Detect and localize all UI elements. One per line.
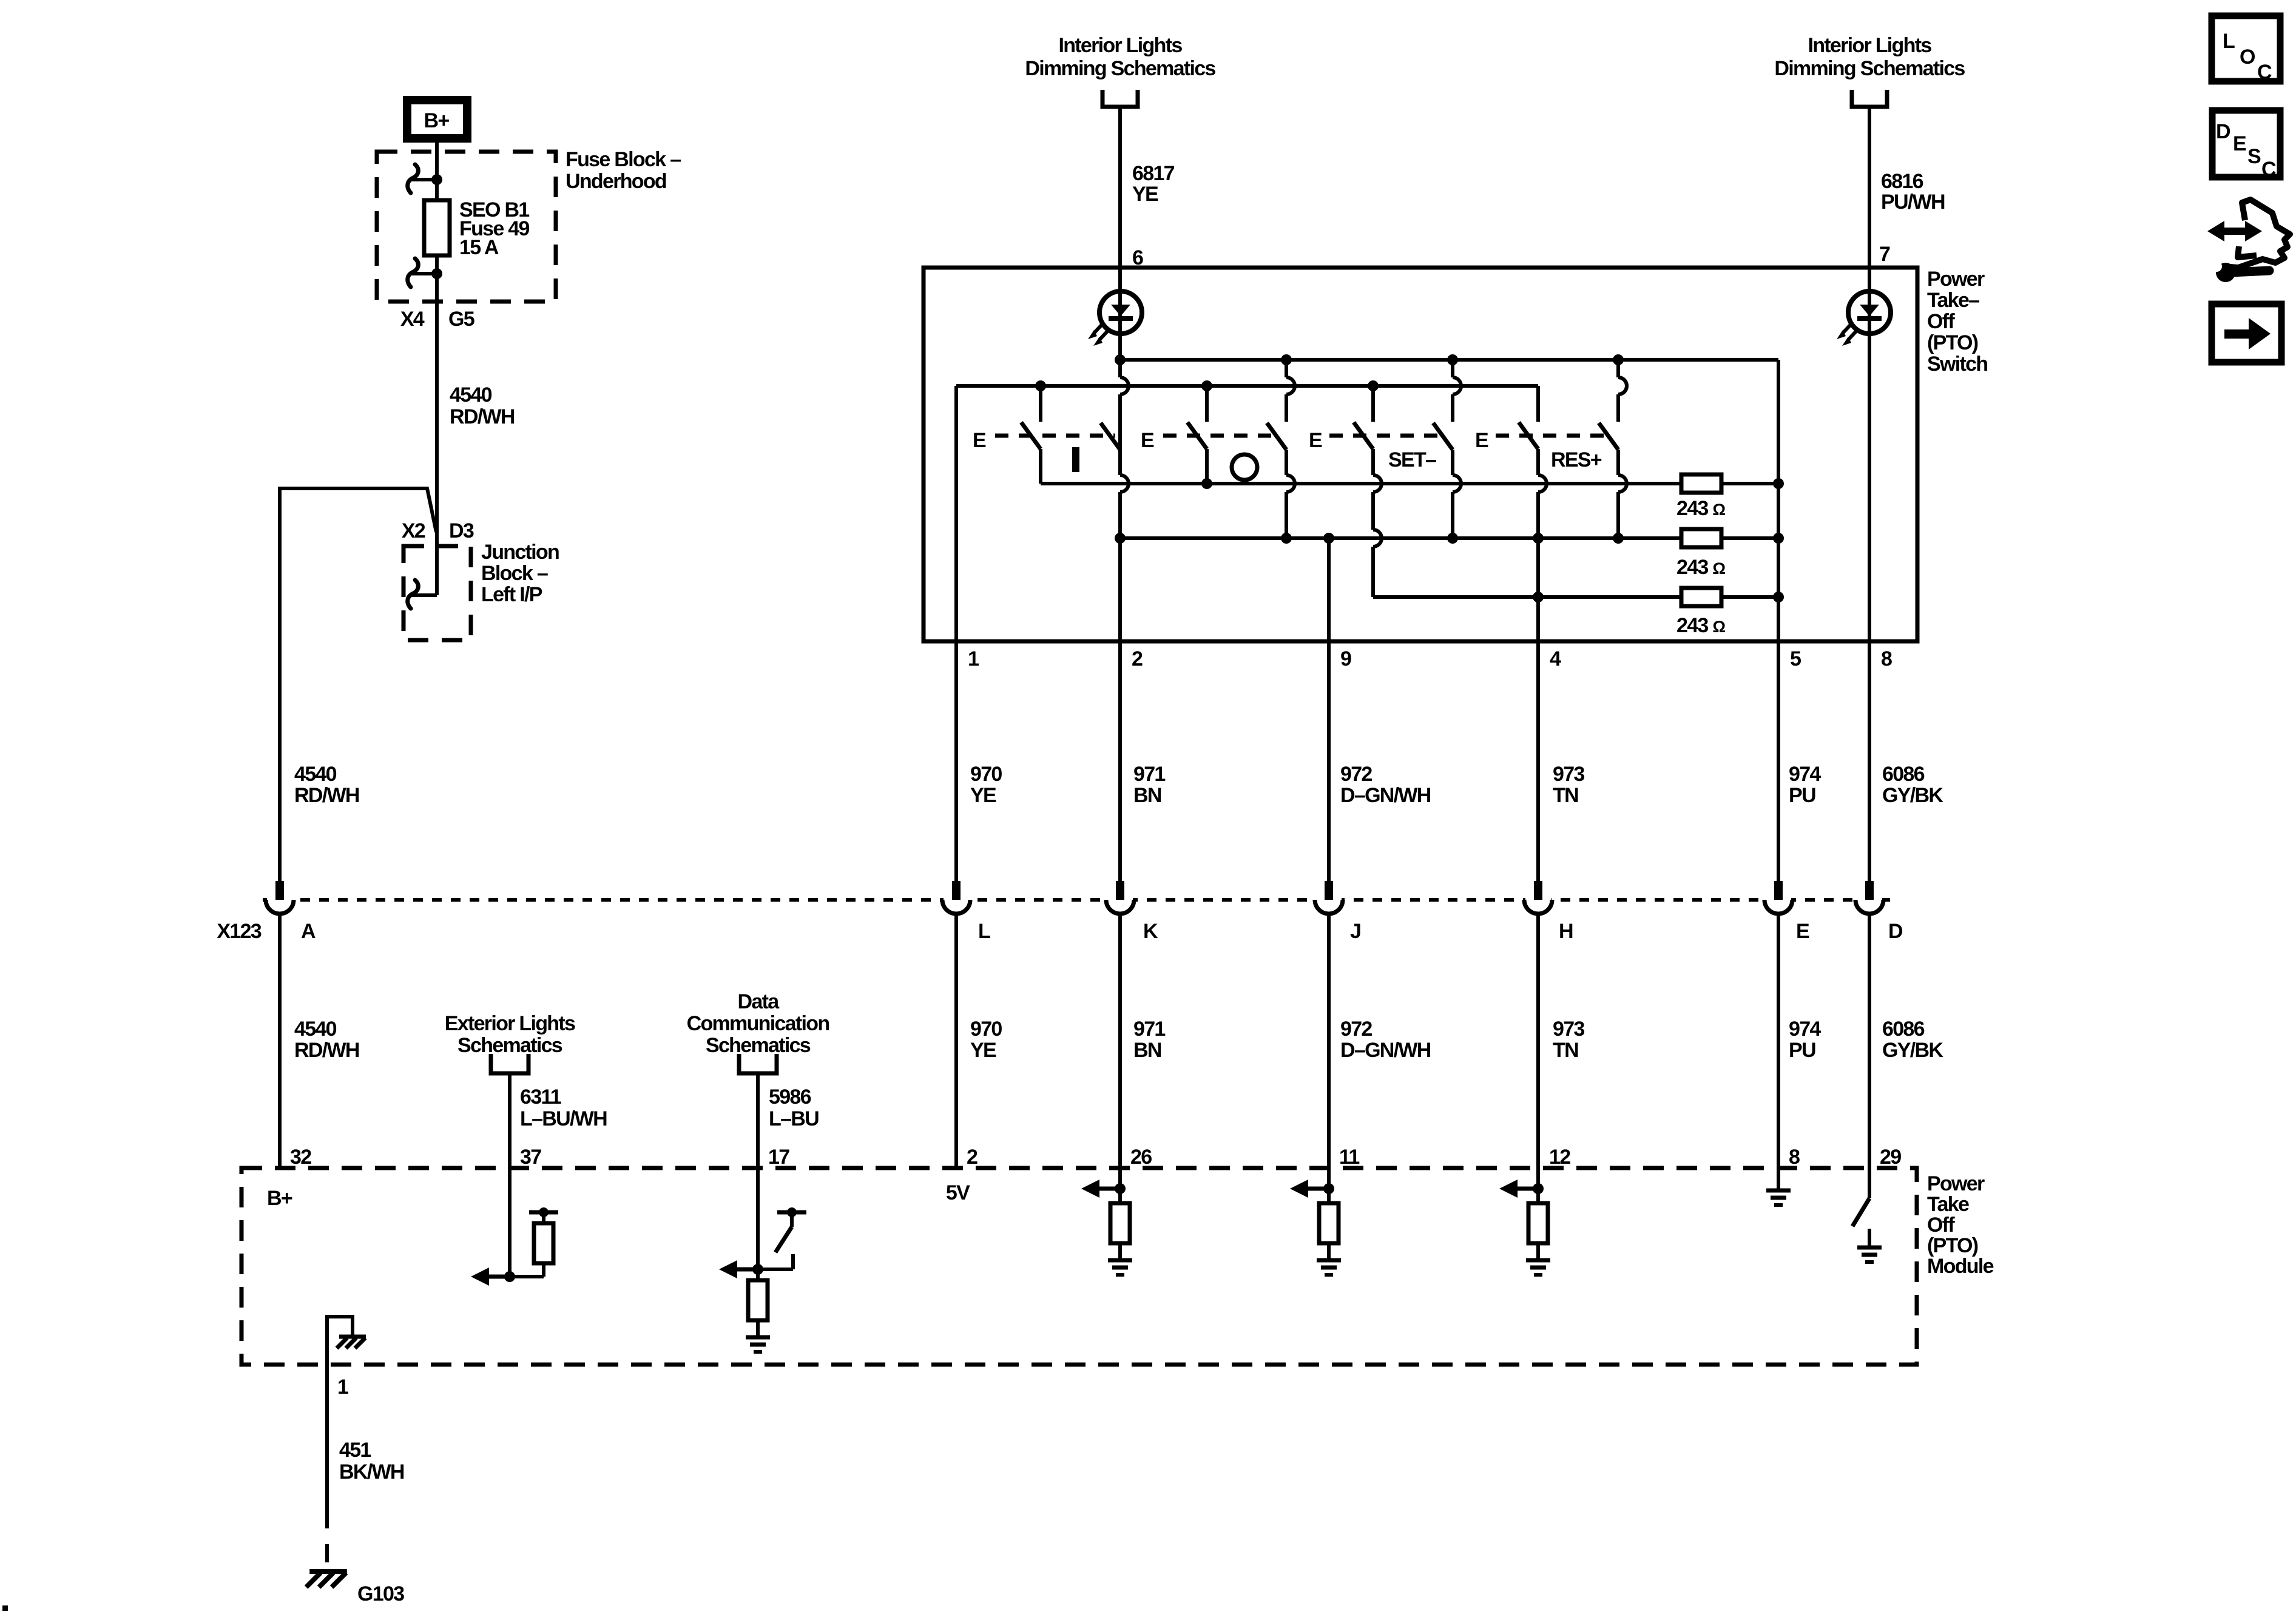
resistor R1 243ohm [1681,474,1721,493]
connector X123 cavity K [1107,896,1133,903]
svg-text:451: 451 [339,1439,371,1462]
svg-text:974: 974 [1789,763,1821,786]
svg-text:TN: TN [1553,784,1578,807]
svg-text:GY/BK: GY/BK [1882,784,1943,807]
module input pin 37: pull-up resistor and sense arrow [508,1168,512,1277]
battery feed B+ symbol [407,100,467,138]
svg-text:D–GN/WH: D–GN/WH [1340,784,1431,807]
svg-text:E: E [973,429,986,452]
group4 left wire to pin4 (H) [1536,449,1540,475]
connector X123 cavity E [1766,896,1791,903]
icon adjust/repair (hand with double arrow and wrench) [2221,228,2249,235]
actuator dashed link group2 [1163,434,1281,438]
svg-text:O: O [2240,46,2255,69]
svg-text:YE: YE [970,1039,996,1062]
svg-text:970: 970 [970,763,1002,786]
svg-text:5V: 5V [946,1181,970,1204]
actuator dashed link group3 [1329,434,1448,438]
svg-text:Take–: Take– [1927,289,1979,312]
svg-text:E: E [1475,429,1488,452]
rail B (common rail to pin 1) [956,384,1538,388]
svg-text:Off: Off [1927,1214,1955,1237]
group4 right wire to bus2 [1616,360,1620,377]
connector X123 cavity A [267,896,292,903]
wire L to PTO module [954,914,958,1168]
svg-text:970: 970 [970,1018,1002,1041]
svg-text:5: 5 [1790,647,1801,670]
svg-text:Exterior Lights: Exterior Lights [445,1012,575,1035]
svg-text:6086: 6086 [1882,1018,1925,1041]
module input pin 11: sense arrow, resistor to ground [1327,1168,1331,1189]
svg-text:6816: 6816 [1881,170,1923,193]
svg-text:L–BU/WH: L–BU/WH [520,1107,607,1130]
wire pin9 from bus2 [1327,538,1331,881]
svg-text:37: 37 [520,1146,541,1169]
wire pin6/LED1/pin2 spine [1118,109,1122,377]
svg-text:PU: PU [1789,1039,1815,1062]
svg-text:15 A: 15 A [459,236,499,259]
svg-text:Module: Module [1927,1255,1994,1278]
wire pin1 (rail B left end down) [954,386,958,881]
svg-text:243 Ω: 243 Ω [1676,497,1725,520]
svg-text:Off: Off [1927,310,1955,333]
svg-text:29: 29 [1880,1146,1901,1169]
svg-text:G103: G103 [357,1582,404,1605]
icon forward arrow box [2212,304,2281,362]
svg-text:7: 7 [1879,243,1890,266]
module input pin 17: sense arrow, internal switch, resistor to ground [756,1168,760,1269]
svg-text:243 Ω: 243 Ω [1676,556,1725,579]
module pin 1 wire [325,1365,329,1510]
junction block dashed box [403,546,471,640]
svg-text:E: E [1141,429,1154,452]
svg-text:PU/WH: PU/WH [1881,191,1945,214]
svg-text:4540: 4540 [450,383,492,407]
svg-text:D: D [2216,120,2230,143]
svg-text:Take: Take [1927,1193,1969,1216]
resistor R3 243ohm [1681,588,1721,606]
branch wire to module B+ [280,488,436,881]
svg-text:Junction: Junction [481,541,559,564]
svg-text:Left I/P: Left I/P [481,583,542,606]
position label O (off) [1232,454,1257,480]
svg-text:E: E [1309,429,1322,452]
svg-text:973: 973 [1553,763,1584,786]
svg-text:8: 8 [1881,647,1892,670]
svg-text:973: 973 [1553,1018,1584,1041]
svg-text:E: E [2233,132,2246,155]
svg-text:(PTO): (PTO) [1927,1234,1978,1257]
icon LOC box [2212,16,2280,81]
svg-text:1: 1 [337,1376,348,1399]
svg-text:Schematics: Schematics [706,1034,811,1057]
svg-text:Power: Power [1927,268,1985,291]
svg-text:BN: BN [1133,1039,1161,1062]
terminal hook lower [408,258,419,287]
module pin 29: switch to ground [1868,1168,1871,1198]
svg-text:YE: YE [970,784,996,807]
wire 4540 fuse to junction block [435,255,439,595]
svg-text:L: L [978,920,990,943]
terminal hook upper [408,164,419,193]
svg-text:D–GN/WH: D–GN/WH [1340,1039,1431,1062]
svg-text:6817: 6817 [1132,162,1175,185]
connector X123 cavity L [944,896,969,903]
wire K to PTO module [1118,914,1122,1168]
module pin 8 ground reference [1777,1168,1780,1190]
svg-text:BK/WH: BK/WH [339,1460,404,1484]
svg-text:D3: D3 [449,519,474,542]
svg-text:974: 974 [1789,1018,1821,1041]
ground G103 chassis symbol [309,1569,347,1574]
svg-text:(PTO): (PTO) [1927,331,1978,354]
group3 right wire to bus2 [1451,450,1454,475]
svg-text:J: J [1350,920,1360,943]
svg-text:972: 972 [1340,1018,1372,1041]
switch group 2 (OFF O) contacts [1205,386,1209,422]
actuator dashed link group1 [995,434,1115,438]
svg-text:2: 2 [1132,647,1143,670]
wire H to PTO module [1536,914,1540,1168]
svg-text:5986: 5986 [769,1085,811,1109]
svg-text:6086: 6086 [1882,763,1925,786]
LED indicator (right, pin 7) [1848,291,1891,334]
svg-text:L: L [2223,30,2235,53]
svg-text:X2: X2 [402,519,425,542]
group2 right wire to bus2 [1285,450,1288,475]
PTO module dashed box [241,1168,1917,1365]
svg-text:SET–: SET– [1388,448,1436,471]
svg-text:Interior Lights: Interior Lights [1808,34,1931,57]
node X vertical (to pin 5) [1777,360,1780,881]
svg-text:K: K [1143,920,1158,943]
svg-text:9: 9 [1340,647,1351,670]
svg-text:4: 4 [1550,647,1561,670]
svg-text:26: 26 [1130,1146,1152,1169]
wire B+ to fuse [435,143,439,200]
svg-text:L–BU: L–BU [769,1107,819,1130]
svg-text:G5: G5 [448,308,474,331]
wire J to PTO module [1327,914,1331,1168]
connector X123 cavity J [1316,896,1342,903]
svg-text:Communication: Communication [687,1012,829,1035]
switch group 3 (SET-) contacts [1371,386,1375,422]
PTO switch box [923,268,1917,641]
svg-text:TN: TN [1553,1039,1578,1062]
svg-text:RD/WH: RD/WH [294,1039,359,1062]
page mark dot [2,1605,8,1611]
svg-text:11: 11 [1339,1146,1359,1169]
module input pin 26: sense arrow, resistor to ground [1118,1168,1122,1189]
bus 1 (row of group1/2 commons) [1041,482,1681,485]
svg-text:971: 971 [1133,763,1165,786]
svg-text:GY/BK: GY/BK [1882,1039,1943,1062]
svg-text:Underhood: Underhood [566,170,666,193]
switch group 4 (RES+) contacts [1536,386,1540,422]
connector X123 cavity D [1857,896,1882,903]
svg-text:2: 2 [967,1146,977,1169]
position label I (on) [1072,447,1079,472]
svg-text:Dimming Schematics: Dimming Schematics [1025,57,1215,80]
wire A to PTO module [278,914,282,1168]
wire pin7/LED2/pin8 spine [1868,109,1871,881]
svg-text:Dimming Schematics: Dimming Schematics [1774,57,1965,80]
junction block terminal hook [408,580,419,609]
svg-text:Switch: Switch [1927,353,1987,376]
svg-text:H: H [1559,920,1573,943]
group4 right contact lower wire [1616,450,1620,475]
group3 left wire to bus3 [1371,449,1375,475]
svg-text:4540: 4540 [294,1018,337,1041]
svg-text:PU: PU [1789,784,1815,807]
svg-text:Interior Lights: Interior Lights [1058,34,1182,57]
icon DESC box [2212,110,2280,177]
switch group 1 (ON I) contacts [1039,386,1042,422]
svg-text:17: 17 [768,1146,789,1169]
svg-text:B+: B+ [267,1187,292,1210]
actuator dashed link group4 [1496,434,1613,438]
module input pin 12: sense arrow, resistor to ground [1536,1168,1540,1189]
wire E to PTO module [1777,914,1780,1168]
svg-text:Data: Data [738,990,780,1013]
svg-text:6311: 6311 [520,1085,561,1109]
svg-text:Power: Power [1927,1172,1985,1195]
svg-text:4540: 4540 [294,763,337,786]
svg-text:1: 1 [968,647,979,670]
svg-text:C: C [2257,61,2272,84]
svg-text:E: E [1796,920,1809,943]
svg-text:A: A [301,920,316,943]
connector X123 dotted line [263,898,1899,902]
svg-text:Block –: Block – [481,562,548,585]
wire D to PTO module [1868,914,1871,1168]
svg-text:972: 972 [1340,763,1372,786]
connector X123 cavity H [1525,896,1551,903]
svg-text:RES+: RES+ [1551,448,1602,471]
svg-text:B+: B+ [424,109,449,132]
module internal B+ to chassis ground branch [327,1317,353,1365]
svg-text:Fuse Block –: Fuse Block – [566,148,681,171]
svg-text:C: C [2261,158,2276,181]
svg-text:S: S [2247,145,2261,168]
svg-text:243 Ω: 243 Ω [1676,614,1725,637]
resistor R2 243ohm [1681,529,1721,547]
svg-text:RD/WH: RD/WH [294,784,359,807]
svg-text:X4: X4 [400,308,425,331]
wire to G103 (dashed) [325,1510,329,1567]
svg-text:32: 32 [290,1146,311,1169]
rail A (LED anode rail) [1120,358,1778,362]
LED indicator (left, pin 6) [1099,291,1142,334]
fuse SEO B1 Fuse 49 15A [424,200,450,255]
svg-text:Schematics: Schematics [458,1034,562,1057]
fuse block dashed box [377,152,556,302]
svg-text:RD/WH: RD/WH [450,405,515,428]
svg-text:X123: X123 [217,920,261,943]
svg-text:8: 8 [1789,1146,1800,1169]
bus 2 (to pin 9) [1120,536,1681,540]
svg-text:971: 971 [1133,1018,1165,1041]
svg-text:BN: BN [1133,784,1161,807]
svg-text:D: D [1888,920,1903,943]
svg-text:12: 12 [1549,1146,1570,1169]
svg-text:YE: YE [1132,183,1158,206]
bus 3 [1373,595,1681,599]
